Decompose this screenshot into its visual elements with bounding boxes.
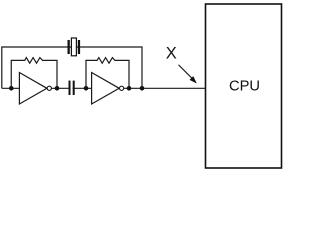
arrow pointing to node X xyxy=(179,65,197,84)
wire feedback loop 1 with resistor R1 xyxy=(11,58,57,89)
inverter U2 xyxy=(92,73,124,105)
wire outer crystal feedback loop xyxy=(2,47,142,88)
inverter U1 xyxy=(19,73,51,105)
wire main signal line xyxy=(2,87,206,89)
svg-text:X: X xyxy=(166,44,177,62)
svg-text:CPU: CPU xyxy=(229,79,260,95)
junction at U1 input xyxy=(9,86,14,91)
capacitor C1 xyxy=(69,81,75,95)
CPU block xyxy=(206,4,282,168)
junction at U1 output xyxy=(55,86,60,91)
junction node X (crystal loop tap) xyxy=(140,86,145,91)
junction at U2 output xyxy=(127,86,132,91)
wire feedback loop 2 with resistor R2 xyxy=(86,58,129,89)
crystal Y1 xyxy=(68,38,81,56)
junction at U2 input xyxy=(84,86,89,91)
